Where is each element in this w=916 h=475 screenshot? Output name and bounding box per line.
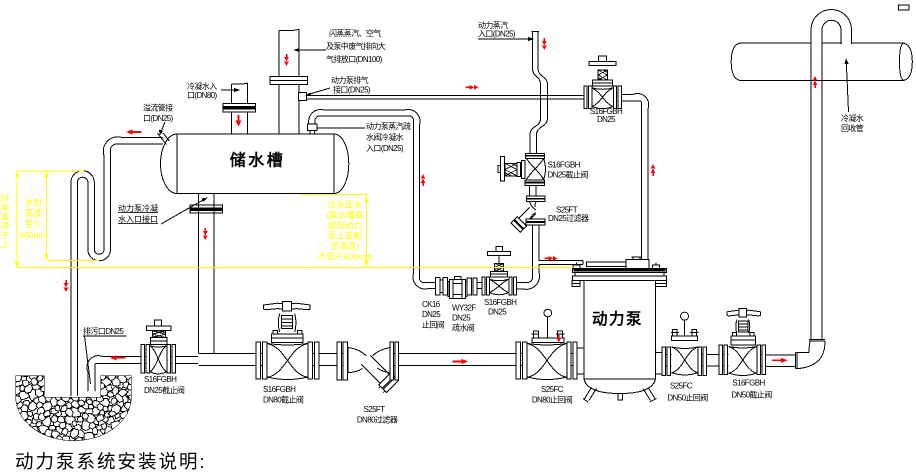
drain pit (rubble lined)	[12, 371, 135, 446]
svg-text:DN25截止阀: DN25截止阀	[548, 170, 589, 180]
red arrow: tank outlet flow	[203, 236, 208, 241]
globe valve S16FGBH DN25 (blowdown)	[141, 320, 175, 374]
svg-text:冷凝水入: 冷凝水入	[187, 81, 217, 91]
red arrow: trap return riser flow	[421, 174, 426, 179]
svg-text:高于: 高于	[0, 230, 9, 240]
svg-text:DN25: DN25	[452, 314, 471, 323]
condensate riser pipe	[811, 45, 822, 340]
svg-text:S16FGBH: S16FGBH	[548, 161, 581, 170]
globe valve S16FGBH DN50 (pump outlet)	[719, 308, 765, 375]
svg-text:S16FGBH: S16FGBH	[484, 298, 517, 307]
svg-text:动力泵蒸汽疏: 动力泵蒸汽疏	[366, 121, 411, 131]
overflow pipe from tank	[103, 133, 169, 162]
yellow dimension: filling head >= 600mm	[301, 194, 367, 196]
svg-text:泵上: 泵上	[0, 240, 9, 249]
svg-text:水封: 水封	[25, 196, 43, 207]
riser loop discharging into recovery pipe	[811, 9, 852, 44]
svg-text:入口(DN25): 入口(DN25)	[478, 30, 516, 39]
svg-text:动力泵冷凝: 动力泵冷凝	[118, 203, 158, 213]
globe valve S16FGBH DN25 (trap group)	[482, 246, 517, 295]
svg-text:DN25: DN25	[488, 308, 507, 317]
flange joint after steam trap	[467, 278, 471, 295]
svg-text:水入口接口: 水入口接口	[118, 214, 158, 224]
yellow datum line at pump top level	[17, 267, 573, 269]
svg-text:S16FGBH: S16FGBH	[263, 385, 296, 394]
svg-text:S25FC: S25FC	[541, 385, 564, 394]
svg-text:冷凝水: 冷凝水	[841, 113, 864, 123]
svg-text:水阀冷凝水: 水阀冷凝水	[366, 132, 404, 142]
wafer check valve CK16 DN25 (trap group)	[435, 278, 482, 296]
svg-text:缘: 缘	[0, 248, 1, 258]
svg-text:排污口DN25: 排污口DN25	[83, 326, 124, 336]
elbow to condensate riser	[796, 340, 826, 369]
svg-text:至高度): 至高度)	[331, 240, 360, 251]
svg-text:回收管: 回收管	[841, 123, 864, 133]
red arrow: riser flow	[813, 76, 818, 81]
svg-text:动力蒸汽: 动力蒸汽	[478, 20, 508, 30]
red arrow: exhaust line flow	[474, 85, 479, 90]
pump vessel 动力泵	[577, 281, 663, 403]
red arrow: pump outlet flow	[781, 358, 788, 363]
svg-text:DN80止回阀: DN80止回阀	[532, 395, 573, 405]
svg-text:溢流管接: 溢流管接	[143, 103, 173, 113]
svg-text:气排放口(DN100): 气排放口(DN100)	[326, 54, 383, 64]
globe valve S16FGBH DN25 (exhaust line)	[584, 56, 621, 109]
pump top cover flange	[572, 263, 666, 287]
svg-text:口(DN25): 口(DN25)	[143, 114, 174, 123]
pump steam inlet box on cover	[626, 257, 649, 268]
svg-text:WY32F: WY32F	[452, 304, 476, 313]
small legend mark	[899, 5, 910, 10]
steam trap WY32F DN25 (trap group)	[448, 276, 467, 298]
main suction line DN80	[176, 194, 585, 366]
condensate recovery header pipe 冷凝水回收管	[731, 42, 912, 81]
svg-text:高度: 高度	[25, 207, 43, 218]
steam branch pipe to pump inlet	[539, 261, 626, 267]
svg-text:泵上盖板: 泵上盖板	[328, 230, 363, 241]
svg-text:闪蒸蒸汽、空气: 闪蒸蒸汽、空气	[329, 28, 381, 38]
yellow dimension: seal height >= pump top	[17, 170, 84, 172]
svg-text:接口(DN25): 接口(DN25)	[333, 85, 371, 95]
globe valve S16FGBH DN25 (steam line, stem left)	[498, 153, 546, 185]
svg-text:DN25: DN25	[422, 310, 441, 319]
vent stack DN100 pipe	[270, 29, 308, 134]
red arrow: steam inlet flow	[542, 46, 547, 51]
blowdown drain line to pit	[87, 356, 176, 392]
svg-text:入口(DN25): 入口(DN25)	[366, 144, 404, 153]
svg-text:S25FT: S25FT	[363, 405, 385, 414]
svg-text:(集水槽底: (集水槽底	[326, 209, 364, 220]
svg-text:S16FGBH: S16FGBH	[732, 379, 765, 388]
motive steam inlet pipe DN25 (S-bend)	[530, 32, 548, 154]
globe valve S16FGBH DN80 (main line)	[256, 301, 319, 379]
check valve S25FC DN80 (main line)	[516, 309, 577, 379]
red arrow: exhaust riser flow	[651, 164, 656, 169]
Y-strainer S25FT DN80 (main line)	[337, 342, 401, 395]
red arrow: overflow flow	[126, 129, 133, 134]
svg-text:注水压头: 注水压头	[328, 199, 363, 210]
water seal trap (loop)	[71, 160, 111, 396]
check valve S25FC DN50 (pump outlet)	[662, 312, 706, 375]
svg-text:S25FC: S25FC	[670, 382, 693, 391]
svg-text:口(DN80): 口(DN80)	[187, 91, 218, 100]
red arrow: check valve vent mark	[558, 334, 560, 339]
red arrow: main line flow	[462, 359, 469, 364]
pump outlet line DN50	[663, 355, 796, 367]
svg-text:DN25截止阀: DN25截止阀	[144, 385, 185, 395]
red arrow: overflow leg into pit	[64, 288, 69, 293]
svg-text:动力泵系统安装说明:: 动力泵系统安装说明:	[15, 451, 207, 472]
svg-text:动力泵: 动力泵	[592, 309, 643, 328]
svg-text:位置: 位置	[0, 211, 9, 221]
yellow dimension: seal height at least 400mm	[46, 171, 48, 260]
svg-text:DN80过滤器: DN80过滤器	[357, 415, 398, 425]
svg-text:及泵中废气排向大: 及泵中废气排向大	[326, 41, 386, 51]
svg-text:必须: 必须	[0, 221, 9, 231]
svg-text:CK16: CK16	[422, 300, 441, 309]
svg-text:止回阀: 止回阀	[422, 320, 445, 330]
svg-text:动力泵排气: 动力泵排气	[331, 75, 369, 85]
red arrow: steam branch flow	[553, 256, 558, 261]
pump exhaust line DN25 to vent	[299, 93, 649, 260]
red arrow: vent flow	[284, 62, 289, 67]
svg-text:最高: 最高	[0, 202, 9, 212]
red arrow: blowdown flow	[110, 355, 117, 360]
red arrow: condensate inlet flow	[238, 115, 240, 122]
svg-text:DN80截止阀: DN80截止阀	[263, 395, 304, 405]
steam trap condensate return pipe to tank	[308, 109, 437, 289]
steam pipe below valve	[517, 158, 540, 289]
svg-text:至少: 至少	[25, 219, 43, 229]
svg-text:S16FGBH: S16FGBH	[144, 375, 177, 384]
svg-text:DN25: DN25	[597, 115, 616, 124]
svg-text:400mm: 400mm	[19, 230, 48, 240]
svg-text:储水槽: 储水槽	[229, 151, 286, 170]
tank bottom outlet pipe (pump condensate inlet)	[190, 194, 223, 365]
svg-text:不低于600mm: 不低于600mm	[318, 251, 372, 262]
svg-text:DN50截止阀: DN50截止阀	[731, 390, 772, 400]
svg-text:DN25过滤器: DN25过滤器	[548, 213, 589, 223]
svg-text:疏水阀: 疏水阀	[452, 323, 475, 333]
svg-text:部到动力: 部到动力	[328, 219, 362, 230]
svg-text:水封: 水封	[0, 193, 9, 203]
Y-strainer S25FT DN25 (steam line)	[511, 196, 545, 232]
tank 储水槽	[161, 134, 349, 194]
svg-text:DN50止回阀: DN50止回阀	[667, 393, 708, 403]
condensate inlet DN80 pipe	[223, 83, 256, 134]
